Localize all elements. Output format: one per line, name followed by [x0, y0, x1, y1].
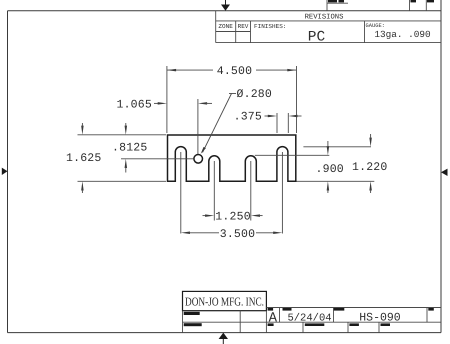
svg-text:FINISHES:: FINISHES:: [254, 23, 286, 30]
svg-text:REVISIONS: REVISIONS: [305, 13, 344, 21]
zone centering mark bottom: [219, 333, 228, 344]
part outline HS-090 strike plate: [168, 135, 296, 181]
svg-text:5/24/04: 5/24/04: [287, 313, 331, 325]
revisions block: [216, 11, 441, 43]
dim .900: [316, 141, 344, 193]
clipped revision-table fragment above border: [327, 0, 426, 11]
title block company box: [183, 291, 267, 310]
svg-text:Ø.280: Ø.280: [237, 88, 273, 101]
dim 1.065: [116, 98, 212, 154]
svg-text:3.500: 3.500: [220, 228, 256, 241]
svg-text:ZONE: ZONE: [218, 23, 233, 30]
zone centering mark left: [2, 168, 8, 175]
svg-text:4.500: 4.500: [217, 65, 253, 78]
dim 4.500: [167, 65, 297, 78]
svg-text:.375: .375: [234, 111, 262, 124]
svg-text:A: A: [269, 311, 278, 327]
dim 1.250: [203, 211, 263, 224]
left extension lines (top edge, hole center, bottom edge): [78, 135, 194, 182]
hole: [194, 155, 203, 164]
slot center lines: [181, 152, 283, 234]
svg-text:1.065: 1.065: [116, 98, 152, 111]
right extension lines (slot tops, bottom edge): [255, 147, 374, 182]
title block grid: [183, 308, 442, 333]
svg-text:.8125: .8125: [112, 142, 148, 155]
zone centering mark right: [441, 169, 448, 176]
svg-text:1.220: 1.220: [352, 161, 388, 174]
zone centering mark top: [221, 0, 230, 11]
svg-text:.900: .900: [316, 163, 344, 176]
svg-text:13ga. .090: 13ga. .090: [374, 29, 431, 40]
dim .375: [234, 111, 302, 134]
dim .8125: [112, 123, 148, 173]
svg-text:DON-JO MFG. INC.: DON-JO MFG. INC.: [185, 295, 264, 309]
svg-text:PC: PC: [308, 30, 326, 46]
svg-text:1.250: 1.250: [215, 211, 251, 224]
dim 4.500 extension lines: [167, 66, 297, 133]
svg-text:REV: REV: [238, 23, 249, 30]
svg-text:1.625: 1.625: [66, 152, 102, 165]
svg-text:HS-090: HS-090: [359, 311, 401, 324]
leader and label diameter .280: [201, 88, 272, 154]
tiny field labels (title block): [184, 312, 200, 315]
dim 1.220: [352, 134, 388, 193]
dim 3.500: [181, 228, 283, 241]
dim 1.625: [66, 123, 102, 193]
